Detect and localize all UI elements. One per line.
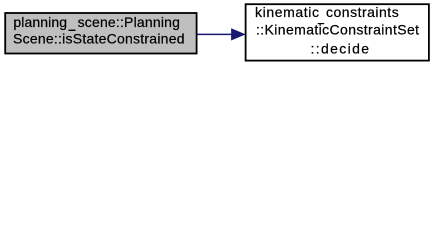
- arrowhead: [232, 29, 245, 40]
- svg-text:planning: planning: [13, 14, 67, 30]
- wire: call edge from caller to callee: [198, 33, 234, 35]
- svg-text:::decide: ::decide: [311, 40, 371, 56]
- node box: planning_scene::PlanningScene::isStateConstrained (caller, grey): [5, 13, 196, 54]
- label line 1 underscore: [318, 23, 325, 24]
- svg-text:::KinematicConstraintSet: ::KinematicConstraintSet: [256, 22, 419, 38]
- svg-text:scene::Planning: scene::Planning: [78, 14, 180, 30]
- node box: kinematic_constraints::KinematicConstraintSet::decide (callee, white): [246, 4, 429, 60]
- svg-text:constraints: constraints: [326, 4, 399, 20]
- svg-text:kinematic: kinematic: [255, 4, 320, 20]
- svg-text:Scene::isStateConstrained: Scene::isStateConstrained: [13, 31, 185, 47]
- label line 1 underscore: [69, 30, 76, 31]
